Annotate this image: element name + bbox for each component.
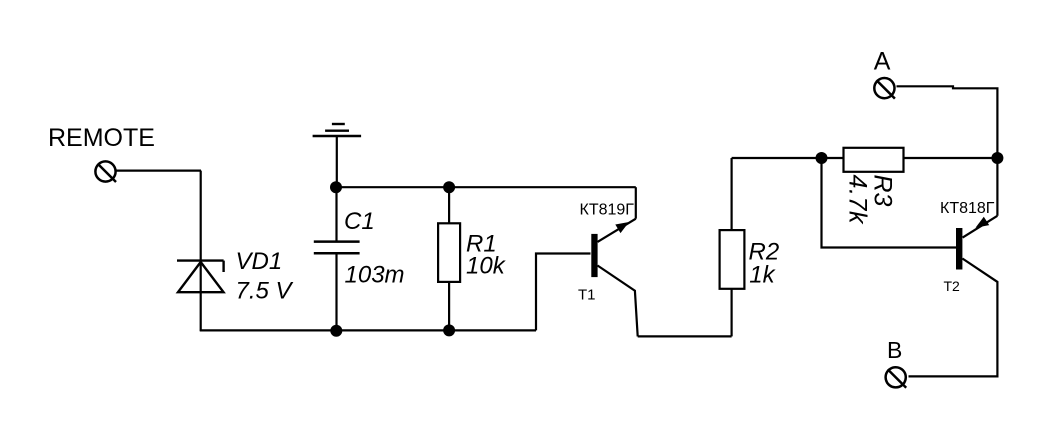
svg-text:A: A xyxy=(874,48,891,76)
svg-text:R3: R3 xyxy=(869,175,897,207)
svg-text:1k: 1k xyxy=(749,261,776,288)
svg-text:7.5 V: 7.5 V xyxy=(236,278,294,305)
svg-text:103m: 103m xyxy=(345,261,405,288)
svg-text:B: B xyxy=(887,337,902,363)
svg-text:T2: T2 xyxy=(944,278,961,294)
svg-text:T1: T1 xyxy=(578,286,596,303)
svg-text:4.7k: 4.7k xyxy=(844,175,872,226)
svg-text:C1: C1 xyxy=(344,208,375,235)
svg-text:КТ819Г: КТ819Г xyxy=(580,202,635,219)
svg-text:VD1: VD1 xyxy=(236,248,283,275)
svg-text:КТ818Г: КТ818Г xyxy=(940,200,995,217)
svg-text:10k: 10k xyxy=(466,252,507,279)
svg-text:REMOTE: REMOTE xyxy=(48,124,155,152)
